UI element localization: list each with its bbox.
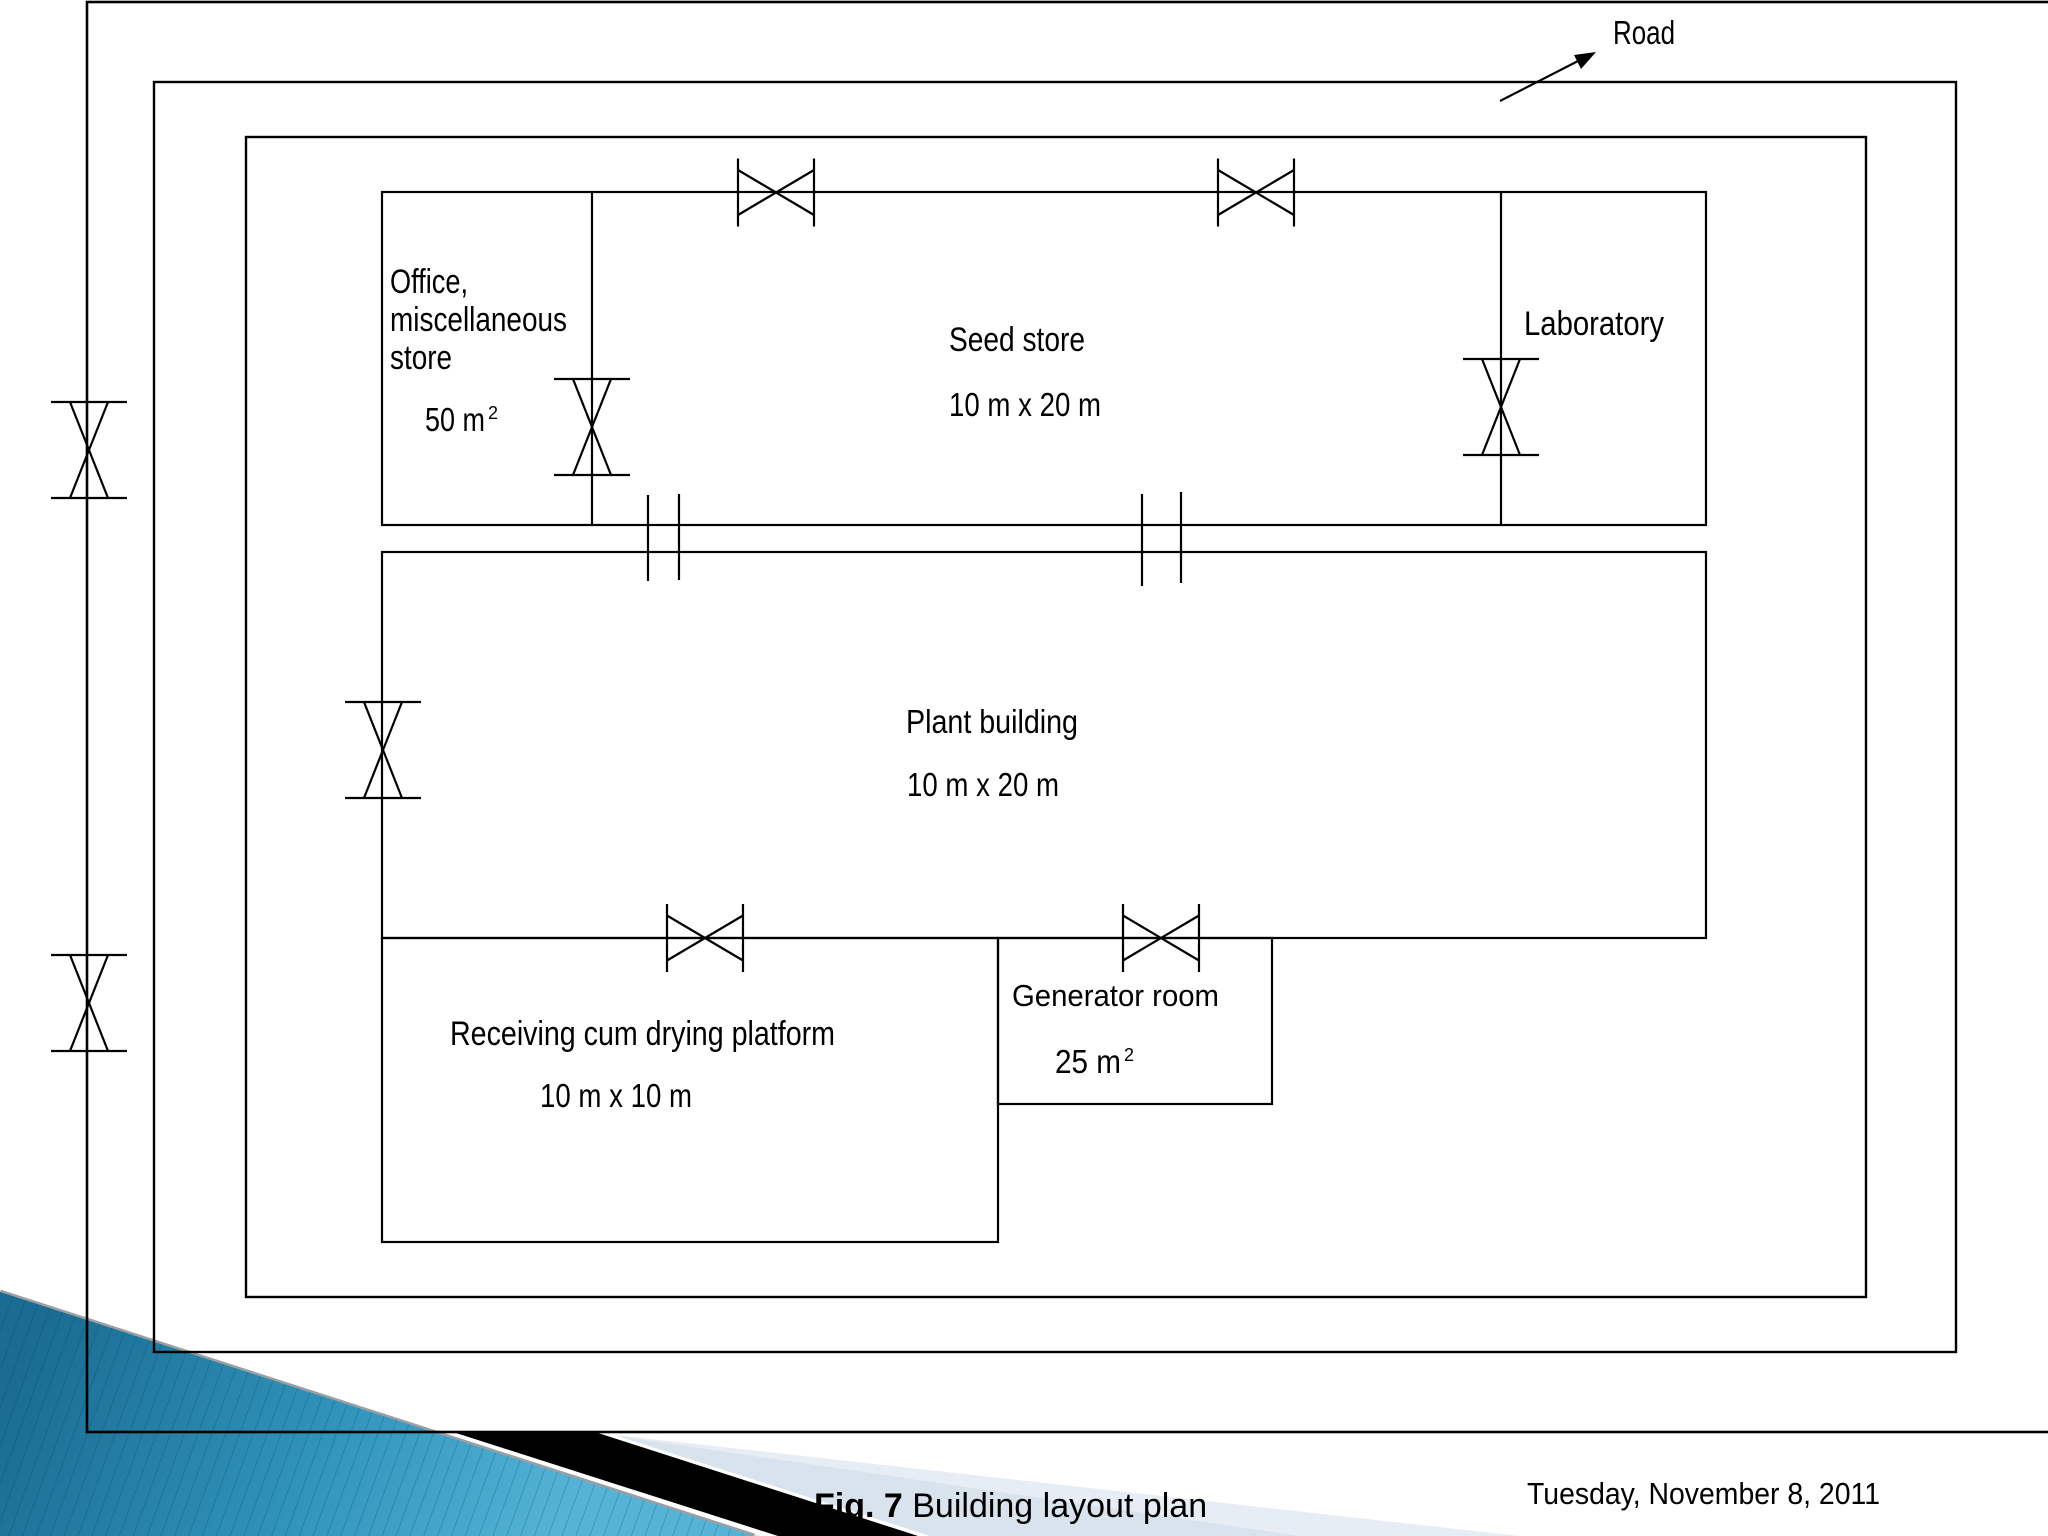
svg-text:Tuesday, November 8, 2011: Tuesday, November 8, 2011: [1527, 1476, 1880, 1511]
footer white sliver left of black stripe: [446, 1433, 778, 1536]
gate symbol receiving platform (horizontal bowtie): [667, 904, 743, 972]
svg-text:store: store: [390, 339, 452, 377]
svg-text:50 m: 50 m: [425, 401, 485, 438]
door symbol right (double tick): [1142, 492, 1181, 586]
gate symbol outer wall upper (vertical bowtie): [51, 402, 127, 498]
svg-text:2: 2: [488, 403, 498, 423]
svg-text:25 m: 25 m: [1055, 1043, 1121, 1080]
gate symbol on top wall left (horizontal bowtie): [738, 159, 814, 227]
svg-text:10 m x 10 m: 10 m x 10 m: [540, 1077, 692, 1114]
svg-text:Plant building: Plant building: [906, 703, 1078, 740]
gate symbol office divider (vertical bowtie): [554, 379, 630, 475]
receiving cum drying platform: [382, 938, 998, 1242]
svg-text:Receiving cum drying platform: Receiving cum drying platform: [450, 1015, 835, 1053]
footer teal wedge shadow edge: [0, 1292, 754, 1536]
gate symbol plant building left wall (vertical bowtie): [345, 702, 421, 798]
svg-text:Road: Road: [1613, 14, 1675, 51]
footer white sliver right of black stripe: [598, 1433, 930, 1536]
footer teal wedge hatch texture: [0, 1290, 770, 1536]
svg-text:2: 2: [1124, 1045, 1134, 1065]
door symbol left (double tick): [648, 494, 679, 581]
footer pale blue outer wedge: [597, 1433, 1520, 1536]
footer teal wedge: [0, 1292, 754, 1536]
svg-text:miscellaneous: miscellaneous: [390, 301, 567, 339]
svg-text:Laboratory: Laboratory: [1524, 305, 1664, 343]
svg-text:Seed store: Seed store: [949, 321, 1085, 359]
gate symbol laboratory wall (vertical bowtie): [1463, 359, 1539, 455]
wall office divider: [591, 192, 593, 525]
svg-text:Fig. 7 Building layout plan: Fig. 7 Building layout plan: [814, 1487, 1207, 1525]
top building (office / seed store / laboratory): [382, 192, 1706, 525]
footer black stripe: [448, 1433, 918, 1536]
gate symbol generator room (horizontal bowtie): [1123, 904, 1199, 972]
svg-text:10 m x 20 m: 10 m x 20 m: [949, 386, 1101, 423]
footer pale blue wedge: [597, 1433, 1300, 1536]
svg-text:Office,: Office,: [390, 263, 468, 301]
gate symbol outer wall lower (vertical bowtie): [51, 955, 127, 1051]
gate symbol on top wall right (horizontal bowtie): [1218, 159, 1294, 227]
wall laboratory divider: [1500, 192, 1502, 525]
road arrow: [1500, 52, 1596, 101]
svg-text:Generator room: Generator room: [1012, 978, 1219, 1013]
plant building: [382, 552, 1706, 938]
svg-text:10 m x 20 m: 10 m x 20 m: [907, 766, 1059, 803]
generator room: [998, 938, 1272, 1104]
compound wall middle rectangle: [154, 82, 1956, 1352]
compound wall inner rectangle: [246, 137, 1866, 1297]
